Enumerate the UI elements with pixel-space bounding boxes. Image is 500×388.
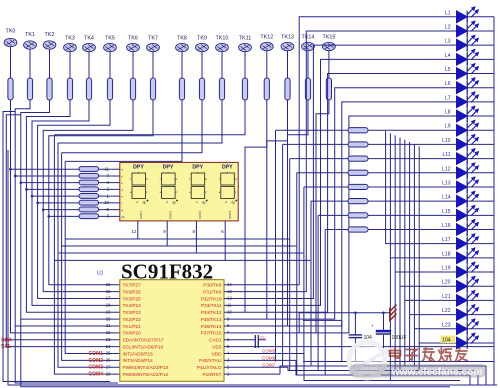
svg-text:TK7/P27: TK7/P27 <box>123 283 142 288</box>
svg-text:TK2/P22: TK2/P22 <box>123 317 142 322</box>
wire COM4 vertical <box>54 135 119 374</box>
7-segment digit 2 <box>160 165 178 220</box>
resistor R9 (TK8) <box>179 78 184 100</box>
touch pad TK5 <box>104 36 117 52</box>
resistor R4 (TK3) <box>67 78 72 100</box>
wire left tail 3 <box>3 340 110 382</box>
wire RS5 to DPY <box>99 195 120 197</box>
wire VDD <box>224 353 304 355</box>
svg-text:TK14: TK14 <box>302 35 315 41</box>
LED L6 <box>445 78 494 94</box>
LED L4 <box>445 50 494 66</box>
wire VSS <box>224 346 494 348</box>
wire TK1 to MCU P21 <box>15 100 120 326</box>
LED L19 <box>442 262 494 278</box>
wire L22 tail <box>409 315 411 362</box>
touch pad TK6 <box>127 36 140 52</box>
svg-text:23: 23 <box>106 337 111 342</box>
wire seg bus 3 <box>8 150 497 385</box>
wire bottom rail 5 <box>304 354 460 381</box>
svg-text:TK6: TK6 <box>128 36 138 42</box>
svg-text:12: 12 <box>131 229 136 234</box>
capacitor C5 <box>255 335 266 348</box>
LED L2 <box>445 21 494 37</box>
wire L12 vertical <box>296 173 298 375</box>
svg-text:dp: dp <box>172 201 176 205</box>
wire DPY common 4 <box>54 221 225 260</box>
LED L22 <box>442 305 494 321</box>
resistor RL12 <box>348 170 368 175</box>
svg-text:dp: dp <box>143 201 147 205</box>
resistor R8 (TK7) <box>150 78 155 100</box>
wire TK13 to MCU <box>267 100 288 319</box>
svg-text:L5: L5 <box>445 67 451 73</box>
wire DPY common 3 <box>58 221 196 253</box>
resistor RS5 <box>79 194 99 199</box>
IC U1 pin labels <box>106 282 233 377</box>
wire TK9 pad to resistor <box>201 52 203 78</box>
svg-text:TK7: TK7 <box>148 36 158 42</box>
svg-text:PWM0/INT5/AD2/P12: PWM0/INT5/AD2/P12 <box>123 372 169 377</box>
wire common 2 extension <box>167 245 296 247</box>
wire COM3 vertical <box>58 143 120 367</box>
touch pad TK8 <box>176 36 189 52</box>
resistor R5 (TK4) <box>86 78 91 100</box>
resistor RL16 <box>348 227 368 232</box>
resistor RL10 <box>348 142 368 147</box>
svg-text:20: 20 <box>106 316 111 321</box>
svg-text:TK4: TK4 <box>84 36 94 42</box>
touch pad TK11 <box>239 36 252 52</box>
svg-text:f: f <box>160 177 161 181</box>
svg-text:22: 22 <box>106 330 111 335</box>
wire L20 tail <box>399 286 401 370</box>
wire TK15 to MCU <box>316 100 329 333</box>
wire RS2 to DPY <box>99 175 120 177</box>
wire L9 vertical <box>275 130 277 361</box>
wire segment row 5 <box>32 195 79 197</box>
svg-text:C5: C5 <box>260 335 266 340</box>
IC U1 body <box>120 280 224 382</box>
wire bottom rail 1 <box>303 361 494 363</box>
wire L23 feed <box>414 144 456 329</box>
svg-text:U1: U1 <box>97 271 104 277</box>
wire segment row 4 <box>26 188 79 190</box>
wire RL11 to LED <box>368 158 457 160</box>
wire L5 to MCU P34 <box>224 74 457 313</box>
svg-text:COM2: COM2 <box>89 358 104 364</box>
wire segment row 3 <box>21 182 79 184</box>
wire L20 feed <box>400 138 457 287</box>
junction seg row 8 <box>48 215 51 218</box>
wire L18 tail <box>389 258 391 381</box>
svg-text:L14: L14 <box>442 195 451 201</box>
LED L9 <box>445 120 494 136</box>
svg-text:25: 25 <box>106 351 111 356</box>
wire TK10 pad to resistor <box>221 52 223 78</box>
junction seg row 7 <box>42 208 45 211</box>
junction seg row 2 <box>14 175 17 178</box>
wire segment row 6 <box>38 202 79 204</box>
wire L14 vertical <box>310 201 312 366</box>
svg-text:P36/TK14: P36/TK14 <box>201 324 222 329</box>
wire right rail <box>493 17 495 385</box>
svg-text:P10/RST: P10/RST <box>202 372 221 377</box>
LED L7 <box>445 92 494 108</box>
wire L16 row <box>325 229 348 231</box>
resistor R14 (TK13) <box>285 78 290 100</box>
watermark logo <box>349 342 391 378</box>
resistor R7 (TK6) <box>130 78 135 100</box>
svg-text:104: 104 <box>442 338 451 344</box>
LED L15 <box>442 206 494 222</box>
wire TK14 to MCU <box>288 100 309 326</box>
junction seg row 5 <box>31 195 34 198</box>
wire COM1 vertical <box>65 161 120 353</box>
wire DPY common 1 <box>65 221 138 239</box>
touch pad TK15 <box>322 35 335 51</box>
wire L2 to MCU P31 <box>224 31 457 292</box>
touch pad TK12 <box>260 35 273 51</box>
wire L11 row <box>290 158 348 160</box>
svg-text:com2: com2 <box>169 211 173 219</box>
svg-text:PWM1/INT4/AD3/P13: PWM1/INT4/AD3/P13 <box>123 365 169 370</box>
svg-text:TK6/P26: TK6/P26 <box>123 289 142 294</box>
svg-text:10: 10 <box>104 200 109 205</box>
wire CAD1 stub <box>224 339 255 341</box>
wire XTALO <box>224 366 288 368</box>
wire RST <box>224 373 280 375</box>
svg-text:TK8: TK8 <box>177 36 187 42</box>
wire TK4 pad to resistor <box>88 52 90 78</box>
wire RS1 to DPY <box>99 168 120 170</box>
svg-text:CAD1: CAD1 <box>209 338 222 343</box>
resistor RS1 <box>79 167 99 172</box>
svg-text:TK10: TK10 <box>216 36 229 42</box>
wire L22 feed <box>410 142 457 315</box>
resistor RS4 <box>79 187 99 192</box>
wire TK8 staircase <box>65 100 182 161</box>
svg-text:INT2/AD5/P15: INT2/AD5/P15 <box>123 351 154 356</box>
wire RS3 to DPY <box>99 182 120 184</box>
wire TK0 pad to resistor <box>10 47 12 78</box>
wire aux L <box>303 320 342 361</box>
svg-text:L15: L15 <box>442 209 451 215</box>
svg-text:P32/TK10: P32/TK10 <box>201 296 222 301</box>
wire L21 feed <box>405 140 457 301</box>
wire L1 to MCU P30 <box>224 17 457 285</box>
svg-text:L13: L13 <box>442 180 451 186</box>
svg-text:VSS: VSS <box>212 344 221 349</box>
wire TK3 to MCU P23 <box>26 100 119 312</box>
wire common 1 extension <box>138 238 290 240</box>
junction dot <box>354 312 357 315</box>
svg-text:21: 21 <box>106 323 111 328</box>
svg-text:TK1: TK1 <box>25 32 35 38</box>
svg-text:TK3: TK3 <box>65 36 75 42</box>
svg-text:COM3: COM3 <box>89 365 104 371</box>
wire L15 vertical <box>317 215 319 370</box>
resistor RS3 <box>79 180 99 185</box>
wire segment row 7 <box>43 209 79 211</box>
wire TK6 to MCU P26 <box>43 100 133 292</box>
svg-text:COM4: COM4 <box>89 372 104 378</box>
svg-text:27: 27 <box>106 364 111 369</box>
svg-text:L10: L10 <box>442 138 451 144</box>
resistor R1 (TK0) <box>8 78 13 100</box>
wire bottom rail 4 <box>296 360 470 385</box>
svg-text:www.elecfans.com: www.elecfans.com <box>391 367 483 378</box>
svg-text:TK0/P20: TK0/P20 <box>123 331 142 336</box>
wire L7 to MCU P36 <box>224 102 457 326</box>
wire TK11 staircase <box>54 100 245 135</box>
wire RL10 to LED <box>368 143 457 145</box>
display module DPY1 body <box>120 162 238 221</box>
wire TK8 pad to resistor <box>181 52 183 78</box>
wire RS7 to DPY <box>99 209 120 211</box>
svg-text:17: 17 <box>106 296 111 301</box>
svg-text:com1: com1 <box>139 211 143 219</box>
value tag 104 <box>441 336 456 344</box>
LED L23 <box>442 319 494 335</box>
wire TK10 staircase <box>58 100 222 143</box>
svg-text:SDA/INT0/AD7/P17: SDA/INT0/AD7/P17 <box>123 338 165 343</box>
svg-text:L17: L17 <box>442 237 451 243</box>
touch pad TK7 <box>147 36 160 52</box>
wire RL13 to LED <box>368 186 457 188</box>
resistor RS8 <box>79 214 99 219</box>
wire RS8 to DPY <box>99 215 120 217</box>
wire L6 to MCU P35 <box>224 88 457 319</box>
wire RL16 to LED <box>368 229 457 231</box>
svg-text:COM1: COM1 <box>89 351 104 357</box>
svg-text:P34/TK12: P34/TK12 <box>201 310 222 315</box>
svg-text:TK9: TK9 <box>197 36 207 42</box>
wire bottom rail 2 <box>280 366 486 385</box>
wire RS4 to DPY <box>99 188 120 190</box>
svg-text:18: 18 <box>106 303 111 308</box>
resistor RL9 <box>348 128 368 133</box>
touch pad TK4 <box>83 36 96 52</box>
resistor RL14 <box>348 199 368 204</box>
watermark text dianzifashaoyou <box>390 348 468 361</box>
touch pad TK1 <box>24 32 37 49</box>
LED L3 <box>445 35 494 51</box>
svg-text:L18: L18 <box>442 251 451 257</box>
svg-text:24: 24 <box>106 344 111 349</box>
LED L14 <box>442 191 494 207</box>
wire RS6 to DPY <box>99 202 120 204</box>
svg-text:P40/XTALI: P40/XTALI <box>199 358 221 363</box>
wire L3 to MCU P32 <box>224 45 457 298</box>
svg-text:COM7: COM7 <box>262 362 276 367</box>
wire L19 feed <box>395 135 456 272</box>
svg-text:L2: L2 <box>445 24 451 30</box>
svg-text:VDD: VDD <box>212 351 223 356</box>
wire RL9 to LED <box>368 129 457 131</box>
wire TK14 pad to resistor <box>307 51 309 78</box>
wire TK3 pad to resistor <box>69 52 71 78</box>
svg-text:L4: L4 <box>445 53 451 59</box>
junction seg row 1 <box>9 168 12 171</box>
LED L10 <box>442 135 494 151</box>
svg-text:L23: L23 <box>442 322 451 328</box>
svg-text:dp: dp <box>121 215 125 219</box>
wire TK4 to MCU P24 <box>32 100 120 305</box>
svg-text:INT3/AD4/P14: INT3/AD4/P14 <box>123 358 154 363</box>
LED L12 <box>442 163 494 179</box>
wire common 4 extension <box>225 259 310 261</box>
wire L13 vertical <box>303 187 305 362</box>
svg-text:L7: L7 <box>445 95 451 101</box>
wire TK6 pad to resistor <box>132 52 134 78</box>
LED L24 <box>442 333 494 349</box>
svg-text:15: 15 <box>106 282 111 287</box>
touch pad TK0 <box>4 29 17 47</box>
svg-text:TK12: TK12 <box>260 35 273 41</box>
svg-text:P31/TK9: P31/TK9 <box>203 289 222 294</box>
touch pad TK3 <box>64 36 77 52</box>
svg-text:P30/TK8: P30/TK8 <box>203 283 222 288</box>
wire TK1 pad to resistor <box>29 49 31 78</box>
touch pad TK10 <box>216 36 229 52</box>
touch pad TK14 <box>302 35 315 51</box>
svg-text:com3: com3 <box>198 211 202 219</box>
svg-text:dp: dp <box>231 201 235 205</box>
wire L14 row <box>311 200 348 202</box>
LED L13 <box>442 177 494 193</box>
wire TK7 pad to resistor <box>152 52 154 78</box>
wire L24 tail <box>418 343 420 371</box>
wire left tail 1 <box>15 326 118 383</box>
svg-text:26: 26 <box>106 358 111 363</box>
touch pad TK13 <box>281 35 294 51</box>
LED L5 <box>445 64 494 80</box>
wire RL14 to LED <box>368 200 457 202</box>
capacitor C1 104 <box>349 313 372 362</box>
LED L17 <box>442 234 494 250</box>
svg-text:L16: L16 <box>442 223 451 229</box>
wire SDA net <box>3 112 120 340</box>
svg-text:L1: L1 <box>445 10 451 16</box>
wire TK5 to MCU P25 <box>38 100 120 299</box>
svg-text:P33/TK11: P33/TK11 <box>201 303 222 308</box>
LED L16 <box>442 220 494 236</box>
svg-text:L22: L22 <box>442 308 451 314</box>
wire RL12 to LED <box>368 172 457 174</box>
wire L24 feed <box>419 146 456 343</box>
wire L10 row <box>283 143 348 145</box>
LED L11 <box>443 149 494 165</box>
svg-text:TK15: TK15 <box>322 35 335 41</box>
wire bottom rail 3 <box>288 367 478 385</box>
LED L21 <box>442 291 494 307</box>
wire L16 vertical <box>324 230 326 376</box>
wire DPY common 2 <box>62 221 168 246</box>
ground symbol <box>390 305 397 322</box>
svg-text:100UF: 100UF <box>392 335 407 341</box>
svg-text:COM6: COM6 <box>262 356 276 361</box>
7-segment digit 4 <box>219 165 237 220</box>
svg-text:TK4/P24: TK4/P24 <box>123 303 142 308</box>
7-segment digit 1 <box>130 165 148 220</box>
LED L20 <box>442 276 494 292</box>
junction dot <box>382 312 385 315</box>
LED L18 <box>442 248 494 264</box>
wire L19 tail <box>394 272 396 375</box>
wire TK0 to MCU P20 <box>11 100 120 333</box>
svg-text:P37/TK15: P37/TK15 <box>201 331 222 336</box>
svg-text:L11: L11 <box>443 152 451 158</box>
wire L23 tail <box>413 329 415 366</box>
wire L9 row <box>276 129 349 131</box>
svg-text:TK5: TK5 <box>105 36 115 42</box>
resistor R6 (TK5) <box>107 78 112 100</box>
resistor R16 (TK15) <box>326 78 331 100</box>
wire L8 to MCU P37 <box>224 116 457 333</box>
resistor R12 (TK11) <box>242 78 247 100</box>
junction seg row 6 <box>36 202 39 205</box>
svg-text:L3: L3 <box>445 39 451 45</box>
wire L13 row <box>304 186 348 188</box>
resistor R11 (TK10) <box>219 78 224 100</box>
wire TK7 to MCU P27 <box>49 100 153 285</box>
resistor RL13 <box>348 184 368 189</box>
svg-text:L20: L20 <box>442 280 451 286</box>
wire L21 tail <box>404 300 406 366</box>
wire TK11 pad to resistor <box>244 52 246 78</box>
resistor R2 (TK1) <box>27 78 32 100</box>
wire L12 row <box>297 172 348 174</box>
resistor R3 (TK2) <box>47 78 52 100</box>
svg-text:TK11: TK11 <box>239 36 251 42</box>
resistor RL15 <box>348 213 368 218</box>
svg-text:L19: L19 <box>442 266 451 272</box>
svg-text:dp: dp <box>202 201 206 205</box>
svg-text:P41/XTALO: P41/XTALO <box>197 365 222 370</box>
resistor RS7 <box>79 207 99 212</box>
wire segment row 8 <box>49 215 79 217</box>
svg-text:TK13: TK13 <box>281 35 294 41</box>
wire segment row 2 <box>15 175 79 177</box>
wire TK12 to MCU <box>245 100 267 312</box>
svg-text:COM5: COM5 <box>262 349 276 354</box>
resistor R15 (TK14) <box>305 78 310 100</box>
LED cathode chain <box>466 17 468 343</box>
junction seg row 3 <box>20 181 23 184</box>
wire L18 feed <box>390 133 456 258</box>
svg-text:11: 11 <box>104 166 109 171</box>
wire L10 vertical <box>282 144 284 366</box>
wire left tail 2 <box>21 319 450 387</box>
wire L17 feed <box>386 131 457 244</box>
svg-text:TK5/P25: TK5/P25 <box>123 296 142 301</box>
resistor RS6 <box>79 200 99 205</box>
wire common 3 extension <box>196 252 303 254</box>
svg-text:L21: L21 <box>442 294 451 300</box>
resistor RL11 <box>348 156 368 161</box>
wire decoupling rail <box>299 313 390 333</box>
touch pad TK9 <box>196 36 209 52</box>
svg-text:SCL/INT1/AD6/P16: SCL/INT1/AD6/P16 <box>123 344 164 349</box>
wire TK13 pad to resistor <box>287 51 289 78</box>
wire L4 to MCU P33 <box>224 59 457 305</box>
wire TK15 pad to resistor <box>328 51 330 78</box>
wire TK5 pad to resistor <box>109 52 111 78</box>
svg-text:P35/TK13: P35/TK13 <box>201 317 222 322</box>
touch pad TK2 <box>43 32 56 49</box>
wire L11 vertical <box>289 159 291 371</box>
